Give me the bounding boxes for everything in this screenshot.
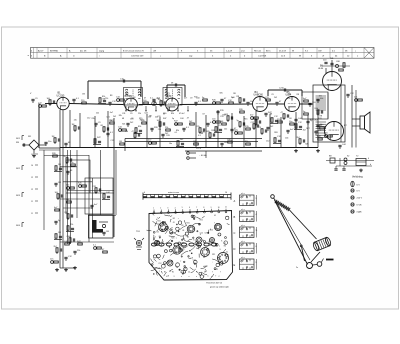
svg-text:B2: B2 <box>199 224 201 226</box>
svg-text:a: a <box>196 276 197 278</box>
svg-text:C31 R12 559: C31 R12 559 <box>131 56 144 58</box>
svg-text:R4: R4 <box>157 232 159 234</box>
svg-text:22k: 22k <box>165 127 168 129</box>
svg-text:C12: C12 <box>221 262 224 264</box>
svg-text:R8: R8 <box>233 93 235 95</box>
svg-text:41: 41 <box>214 215 216 217</box>
svg-text:68: 68 <box>133 97 135 99</box>
svg-text:C12: C12 <box>193 260 196 262</box>
svg-text:R4: R4 <box>159 236 161 238</box>
svg-text:nr: nr <box>73 55 75 58</box>
svg-text:R15: R15 <box>244 118 247 120</box>
svg-text:10n: 10n <box>289 121 292 123</box>
svg-text:1M: 1M <box>58 164 61 166</box>
svg-text:R15: R15 <box>140 119 143 121</box>
svg-text:10n: 10n <box>250 101 253 103</box>
svg-text:22k: 22k <box>70 224 73 226</box>
svg-text:C9: C9 <box>271 94 273 96</box>
svg-text:b: b <box>370 164 371 166</box>
svg-text:7: 7 <box>176 238 177 240</box>
svg-text:C9: C9 <box>130 113 132 115</box>
svg-text:10: 10 <box>225 192 227 194</box>
svg-text:1M: 1M <box>148 117 151 119</box>
svg-text:UCC85: UCC85 <box>57 94 66 97</box>
svg-text:C8: C8 <box>161 241 163 243</box>
svg-text:7: 7 <box>196 272 197 274</box>
svg-text:C12: C12 <box>210 229 213 231</box>
svg-text:4: 4 <box>368 158 369 160</box>
svg-text:1M: 1M <box>119 141 122 143</box>
svg-text:C31: C31 <box>106 117 109 119</box>
svg-text:1M: 1M <box>106 231 109 233</box>
svg-text:5: 5 <box>182 207 183 209</box>
svg-text:82k: 82k <box>174 124 177 126</box>
svg-text:2k2: 2k2 <box>224 129 227 131</box>
svg-text:12: 12 <box>31 189 33 191</box>
svg-text:S2: S2 <box>347 156 349 158</box>
svg-text:7: 7 <box>180 261 181 263</box>
svg-text:22k: 22k <box>74 119 77 121</box>
svg-text:TS11 B 25 327 05: TS11 B 25 327 05 <box>206 283 223 285</box>
svg-text:7: 7 <box>196 207 197 209</box>
svg-text:82k: 82k <box>207 131 210 133</box>
svg-text:7: 7 <box>219 246 220 248</box>
svg-text:B2: B2 <box>203 257 205 259</box>
svg-text:C12: C12 <box>180 236 183 238</box>
svg-text:R47: R47 <box>163 118 166 120</box>
svg-text:R47: R47 <box>110 120 113 122</box>
svg-text:C44: C44 <box>180 118 183 120</box>
svg-text:BX998A: BX998A <box>50 49 58 52</box>
svg-text:D: D <box>234 247 236 251</box>
svg-text:FM: FM <box>16 142 19 144</box>
svg-text:CW: CW <box>318 50 322 52</box>
svg-text:8: 8 <box>203 207 204 209</box>
svg-text:R21: R21 <box>212 254 215 256</box>
svg-text:2x6 V: 2x6 V <box>357 198 363 200</box>
svg-text:0.1: 0.1 <box>198 135 201 137</box>
svg-text:B2: B2 <box>182 243 184 245</box>
svg-text:1M: 1M <box>224 142 227 144</box>
svg-text:10n: 10n <box>130 118 133 120</box>
svg-text:R4: R4 <box>183 238 185 240</box>
svg-text:a b c: a b c <box>241 225 245 227</box>
svg-text:22k: 22k <box>138 113 141 115</box>
svg-text:A: A <box>234 199 236 203</box>
svg-text:82k: 82k <box>122 124 125 126</box>
svg-text:68: 68 <box>289 118 291 120</box>
svg-text:41: 41 <box>173 222 175 224</box>
svg-text:R8: R8 <box>270 114 272 116</box>
svg-text:C31: C31 <box>220 116 223 118</box>
svg-text:Verlichting: Verlichting <box>352 176 363 179</box>
svg-text:0: 0 <box>144 192 145 194</box>
svg-text:82k: 82k <box>245 141 248 143</box>
svg-text:82k: 82k <box>171 113 174 115</box>
svg-text:12: 12 <box>31 177 33 179</box>
svg-text:10n: 10n <box>48 141 51 143</box>
svg-text:11: 11 <box>31 213 33 215</box>
svg-text:W: W <box>299 56 301 58</box>
svg-text:A4 27: A4 27 <box>38 49 44 52</box>
svg-text:C8: C8 <box>191 257 193 259</box>
svg-text:C31: C31 <box>157 116 160 118</box>
svg-text:220 V: 220 V <box>196 148 202 150</box>
svg-text:100: 100 <box>231 97 234 99</box>
svg-text:1-2-59: 1-2-59 <box>226 50 233 52</box>
svg-text:R26: R26 <box>211 130 214 132</box>
svg-text:C8: C8 <box>186 236 188 238</box>
svg-text:10n: 10n <box>158 99 161 101</box>
svg-text:x2: x2 <box>180 272 182 274</box>
svg-text:82k: 82k <box>119 115 122 117</box>
svg-text:47: 47 <box>187 118 189 120</box>
svg-text:R26: R26 <box>274 132 277 134</box>
svg-text:1M: 1M <box>72 124 75 126</box>
svg-text:3: 3 <box>174 276 175 278</box>
svg-text:9: 9 <box>211 207 212 209</box>
svg-text:C: C <box>234 231 236 235</box>
svg-text:4: 4 <box>175 207 176 209</box>
svg-text:R15: R15 <box>318 118 321 120</box>
svg-text:dec 58: dec 58 <box>80 50 87 52</box>
svg-text:B2: B2 <box>173 218 175 220</box>
svg-text:1: 1 <box>153 208 154 210</box>
svg-text:4n7: 4n7 <box>181 113 184 115</box>
svg-text:R47: R47 <box>306 128 309 130</box>
svg-text:a: a <box>211 276 212 278</box>
svg-text:R4: R4 <box>224 245 226 247</box>
svg-text:82k: 82k <box>138 126 141 128</box>
svg-text:2k2: 2k2 <box>315 120 318 122</box>
svg-text:2k2: 2k2 <box>96 112 99 114</box>
svg-text:C12: C12 <box>87 118 90 120</box>
svg-text:C44: C44 <box>144 112 147 114</box>
svg-text:7: 7 <box>215 275 216 277</box>
svg-text:22k: 22k <box>91 118 94 120</box>
svg-text:10n: 10n <box>70 162 73 164</box>
svg-text:R8: R8 <box>110 95 112 97</box>
svg-text:1M: 1M <box>125 131 128 133</box>
svg-text:2k2: 2k2 <box>113 116 116 118</box>
svg-text:10n: 10n <box>50 259 53 261</box>
svg-text:gezien op soldeerzijde: gezien op soldeerzijde <box>210 286 229 289</box>
svg-text:~ 60 Hz: ~ 60 Hz <box>199 155 207 157</box>
svg-text:2k2: 2k2 <box>274 97 277 99</box>
svg-text:11: 11 <box>225 207 227 209</box>
svg-text:B: B <box>234 215 236 219</box>
svg-text:4n7: 4n7 <box>184 98 187 100</box>
svg-text:0.1: 0.1 <box>150 98 153 100</box>
svg-text:3: 3 <box>167 207 168 209</box>
svg-text:7: 7 <box>220 272 221 274</box>
svg-text:C12: C12 <box>158 263 161 265</box>
svg-text:10: 10 <box>31 165 33 167</box>
svg-text:0.1: 0.1 <box>175 132 178 134</box>
svg-text:6 V: 6 V <box>357 185 361 187</box>
svg-text:B C9 vervalt C53 en R: B C9 vervalt C53 en R <box>123 49 144 52</box>
svg-text:a b c: a b c <box>241 241 245 243</box>
svg-text:7: 7 <box>161 246 162 248</box>
svg-text:wijzig: wijzig <box>99 50 105 52</box>
svg-text:10: 10 <box>218 207 220 209</box>
svg-text:C12: C12 <box>110 140 113 142</box>
svg-text:R41: R41 <box>330 58 333 60</box>
svg-text:82k: 82k <box>305 143 308 145</box>
svg-text:1M: 1M <box>58 232 61 234</box>
svg-text:82k: 82k <box>220 93 223 95</box>
svg-text:6 V/b: 6 V/b <box>357 205 363 207</box>
svg-text:R21: R21 <box>187 222 190 224</box>
svg-text:R21: R21 <box>158 221 161 223</box>
svg-text:C8: C8 <box>182 230 184 232</box>
svg-text:R15: R15 <box>194 97 197 99</box>
svg-text:a b c: a b c <box>241 257 245 259</box>
svg-text:25.2.59: 25.2.59 <box>279 50 287 52</box>
svg-text:E: E <box>234 263 236 267</box>
svg-text:41: 41 <box>189 251 191 253</box>
svg-text:R8: R8 <box>297 94 299 96</box>
svg-text:10: 10 <box>31 154 33 156</box>
svg-text:68: 68 <box>122 118 124 120</box>
svg-text:R26: R26 <box>165 98 168 100</box>
svg-text:C44: C44 <box>285 138 288 140</box>
svg-text:4n7: 4n7 <box>110 112 113 114</box>
svg-text:7: 7 <box>156 272 157 274</box>
svg-text:maten in mm: maten in mm <box>168 191 179 194</box>
svg-text:C8: C8 <box>167 276 169 278</box>
svg-text:C31: C31 <box>202 132 205 134</box>
svg-text:a b c: a b c <box>241 209 245 211</box>
svg-text:7: 7 <box>214 222 215 224</box>
svg-text:C8: C8 <box>181 225 183 227</box>
svg-text:C12: C12 <box>266 140 269 142</box>
svg-text:10n: 10n <box>287 98 290 100</box>
svg-text:W: W <box>292 50 294 52</box>
svg-text:a: a <box>189 276 190 278</box>
svg-text:220: 220 <box>158 129 161 131</box>
svg-text:UL84: UL84 <box>318 68 324 70</box>
svg-text:11: 11 <box>31 201 33 203</box>
svg-text:7: 7 <box>212 272 213 274</box>
svg-text:C8: C8 <box>205 233 207 235</box>
svg-text:C12 R18: C12 R18 <box>258 56 267 58</box>
svg-text:UABC80: UABC80 <box>254 94 264 97</box>
svg-text:2x: 2x <box>296 267 298 269</box>
svg-text:22k: 22k <box>354 97 357 99</box>
svg-text:R15: R15 <box>166 135 169 137</box>
svg-text:100: 100 <box>319 96 322 98</box>
svg-text:C9: C9 <box>190 98 192 100</box>
svg-text:6 V: 6 V <box>357 191 361 193</box>
svg-text:1M: 1M <box>82 93 85 95</box>
svg-text:C31: C31 <box>122 113 125 115</box>
svg-text:wijz: wijz <box>189 56 192 58</box>
svg-text:1M: 1M <box>58 182 61 184</box>
svg-text:220: 220 <box>105 98 108 100</box>
svg-text:10n: 10n <box>169 143 172 145</box>
svg-text:x2: x2 <box>204 272 206 274</box>
svg-text:B3 C: B3 C <box>266 50 271 52</box>
svg-text:47: 47 <box>163 114 165 116</box>
svg-text:B2: B2 <box>171 261 173 263</box>
svg-text:C12: C12 <box>215 269 218 271</box>
svg-text:C9: C9 <box>202 113 204 115</box>
svg-text:7: 7 <box>184 249 185 251</box>
svg-text:22k: 22k <box>197 126 200 128</box>
svg-text:22k: 22k <box>77 250 80 252</box>
svg-text:6: 6 <box>189 207 190 209</box>
svg-text:mA/b: mA/b <box>357 211 363 214</box>
svg-text:1M: 1M <box>52 136 55 138</box>
svg-text:22k: 22k <box>320 98 323 100</box>
svg-text:R1: R1 <box>164 272 166 274</box>
svg-text:41: 41 <box>226 252 228 254</box>
svg-text:R1: R1 <box>172 272 174 274</box>
svg-text:C4: C4 <box>188 272 190 274</box>
svg-text:a b c: a b c <box>241 193 245 195</box>
svg-text:R21: R21 <box>171 237 174 239</box>
svg-text:1M: 1M <box>193 141 196 143</box>
svg-text:2: 2 <box>160 208 161 210</box>
svg-text:c: c <box>355 50 356 52</box>
svg-text:R6 C11: R6 C11 <box>254 50 262 52</box>
svg-text:a: a <box>181 276 182 278</box>
svg-text:c: c <box>160 56 161 58</box>
svg-text:10n: 10n <box>288 93 291 95</box>
svg-text:R8: R8 <box>320 116 322 118</box>
svg-text:R21: R21 <box>200 220 203 222</box>
